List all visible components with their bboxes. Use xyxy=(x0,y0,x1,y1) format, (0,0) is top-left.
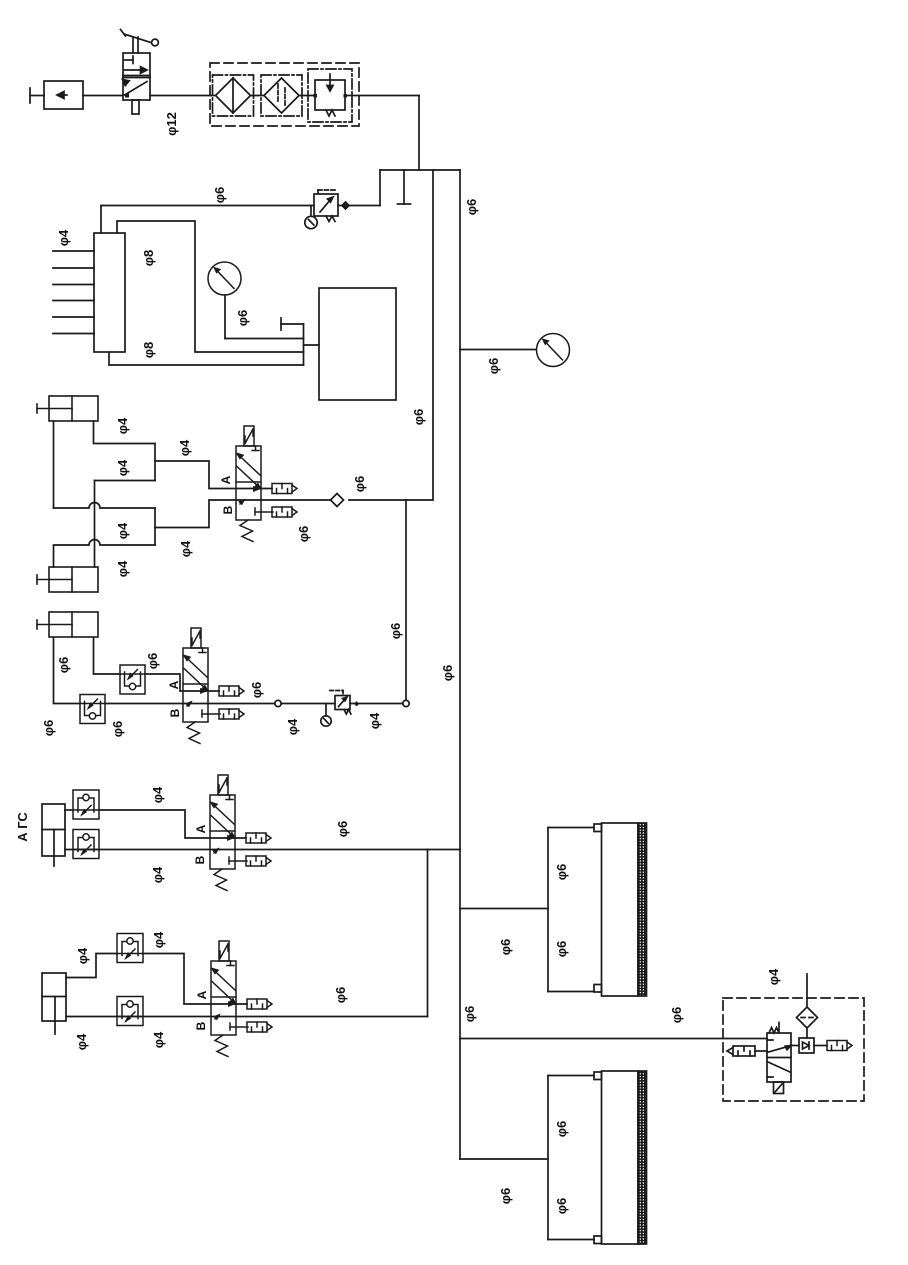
svg-text:φ8: φ8 xyxy=(141,250,156,267)
FRL regulator 3 xyxy=(308,69,359,122)
svg-text:φ4: φ4 xyxy=(151,1031,166,1048)
svg-text:φ6: φ6 xyxy=(249,682,264,699)
svg-text:φ6: φ6 xyxy=(235,310,250,327)
svg-text:φ6: φ6 xyxy=(554,1121,569,1138)
solenoid valve V2 xyxy=(183,628,220,744)
svg-text:φ6: φ6 xyxy=(56,657,71,674)
wire bus to blow-off unit xyxy=(460,1038,767,1040)
wire bus to gauge MH1 xyxy=(460,349,536,351)
wire DR2 to valve V2 xyxy=(105,703,275,705)
plugged stub at receiver xyxy=(281,318,304,330)
svg-text:φ4: φ4 xyxy=(766,968,781,985)
blow-off unit dashed enclosure xyxy=(723,998,864,1101)
solenoid valve V3 xyxy=(210,775,247,891)
wire DR3 to valve V3 port A xyxy=(99,810,246,838)
valve V4 silencer B xyxy=(247,1022,272,1032)
check valve K1 xyxy=(799,1038,814,1053)
long line C5 lower port through V4 to drop xyxy=(66,1016,428,1018)
blow-off silencer right xyxy=(827,1041,852,1051)
wire DR1 to valve V2 port A xyxy=(145,674,219,691)
wire K1 to silencer xyxy=(814,1045,827,1047)
circle node n1 xyxy=(275,700,281,706)
cylinder C1 xyxy=(37,396,98,421)
svg-text:φ6: φ6 xyxy=(554,1198,569,1215)
flow control DR4 xyxy=(73,830,99,859)
wire C1 rod port down xyxy=(53,421,55,508)
gauge MH2 stem xyxy=(225,295,304,339)
blow-off silencer left xyxy=(727,1046,755,1056)
wire C1 cap port to node xyxy=(94,421,156,444)
solenoid valve V1 xyxy=(236,426,273,542)
valve V1 silencer A xyxy=(272,484,297,494)
valve V2 silencer B xyxy=(219,709,244,719)
wire down to C2 cap port xyxy=(94,481,96,568)
node bar B-group xyxy=(154,508,156,545)
valve V3 silencer A xyxy=(246,833,271,843)
svg-text:A: A xyxy=(167,680,181,689)
inlet filter F2 xyxy=(797,974,818,1038)
svg-text:φ12: φ12 xyxy=(164,112,179,136)
long line C4 lower port through V3 to bus xyxy=(65,849,460,851)
valve V2 silencer A xyxy=(219,686,244,696)
svg-text:φ4: φ4 xyxy=(115,459,130,476)
svg-text:φ6: φ6 xyxy=(498,939,513,956)
plugged stub on header xyxy=(398,170,411,204)
valve V5 xyxy=(767,1023,791,1094)
wire DR5 to valve V4 port A xyxy=(143,954,247,1005)
cylinder C4 vertical xyxy=(42,804,65,866)
svg-text:φ6: φ6 xyxy=(498,1188,513,1205)
pressure reducer R1 xyxy=(305,190,338,229)
svg-text:B: B xyxy=(194,1021,208,1030)
svg-text:φ6: φ6 xyxy=(411,409,426,426)
svg-text:φ6: φ6 xyxy=(145,653,160,670)
svg-text:φ4: φ4 xyxy=(367,712,382,729)
wire source to hand valve xyxy=(83,95,123,97)
wire rod-group upper with hop xyxy=(54,503,156,508)
svg-text:φ4: φ4 xyxy=(115,560,130,577)
wire node to reducer R2 xyxy=(281,703,335,705)
bus drop to valve P1 line xyxy=(432,170,434,500)
svg-text:φ4: φ4 xyxy=(285,718,300,735)
wire valve V1 pressure line to bus xyxy=(349,499,433,501)
svg-text:φ4: φ4 xyxy=(150,866,165,883)
svg-text:φ6: φ6 xyxy=(554,941,569,958)
wire FRL to bus drop xyxy=(359,96,419,171)
svg-text:φ6: φ6 xyxy=(352,476,367,493)
wire drop from V3 line to V4 line xyxy=(427,850,429,1017)
svg-text:φ4: φ4 xyxy=(115,417,130,434)
svg-text:φ6: φ6 xyxy=(554,864,569,881)
cylinder C2 xyxy=(37,567,98,592)
svg-text:φ4: φ4 xyxy=(150,786,165,803)
svg-text:φ4: φ4 xyxy=(115,522,130,539)
pressure reducer R2 xyxy=(321,691,359,727)
wire manifold bottom port xyxy=(109,352,304,365)
flow control DR5 xyxy=(117,934,143,963)
svg-text:φ6: φ6 xyxy=(110,721,125,738)
svg-text:φ6: φ6 xyxy=(486,358,501,375)
hand lever valve BH1 xyxy=(121,30,159,115)
gauge MH1 xyxy=(537,334,570,367)
circle node n2 xyxy=(403,700,409,706)
svg-text:φ6: φ6 xyxy=(212,187,227,204)
orifice node on V1 line xyxy=(331,494,344,507)
wire C3 rod port down xyxy=(54,638,81,704)
svg-text:A: A xyxy=(195,990,209,999)
wire rod-group lower with hop xyxy=(54,540,156,568)
svg-text:φ6: φ6 xyxy=(669,1007,684,1024)
receiver inlet stub xyxy=(304,344,320,346)
svg-text:φ4: φ4 xyxy=(177,439,192,456)
wire R2 to junction node xyxy=(350,703,403,705)
svg-text:A: A xyxy=(219,475,233,484)
wire manifold top port 1 xyxy=(100,206,102,234)
manifold block xyxy=(94,233,125,352)
sealing jaw 2 xyxy=(548,1071,647,1244)
svg-text:B: B xyxy=(193,855,207,864)
flow control DR3 xyxy=(73,790,99,819)
svg-text:φ6: φ6 xyxy=(296,526,311,543)
svg-text:φ8: φ8 xyxy=(141,342,156,359)
wire header to reducer R1 xyxy=(338,170,380,209)
wire C3 cap port to flow control xyxy=(94,638,121,674)
air source box Z1 xyxy=(44,81,83,109)
sealing jaw 1 xyxy=(548,823,647,996)
cylinder C3 xyxy=(37,612,98,637)
svg-text:φ6: φ6 xyxy=(41,720,56,737)
receiver tank xyxy=(319,288,396,400)
wire C5 upper port to flow control xyxy=(66,954,117,978)
wire bus to sealing jaw 2 xyxy=(460,1158,548,1160)
svg-text:φ6: φ6 xyxy=(388,623,403,640)
svg-text:φ6: φ6 xyxy=(440,665,455,682)
wire A-group to valve V1 port A xyxy=(155,461,272,489)
solenoid valve V4 xyxy=(211,941,248,1057)
svg-text:φ6: φ6 xyxy=(462,1006,477,1023)
svg-text:φ4: φ4 xyxy=(56,229,71,246)
node bar A-group xyxy=(154,444,156,481)
svg-text:B: B xyxy=(168,708,182,717)
wire V5 to left silencer xyxy=(755,1050,767,1052)
svg-text:B: B xyxy=(221,505,235,514)
valve V1 silencer B xyxy=(272,507,297,517)
cylinder C5 vertical xyxy=(42,973,66,1034)
svg-text:φ4: φ4 xyxy=(151,931,166,948)
flow control DR6 xyxy=(117,997,143,1026)
wire manifold top port 2 to receiver xyxy=(117,221,304,352)
wire node to C2 cap port upper xyxy=(95,480,156,482)
flow control DR1 xyxy=(120,665,145,694)
wire C4 upper port to flow control xyxy=(65,809,73,811)
svg-text:A: A xyxy=(194,824,208,833)
flow control DR2 xyxy=(80,695,105,724)
valve V3 silencer B xyxy=(246,856,271,866)
wire hand valve to FRL xyxy=(150,95,210,97)
wire B-group to valve V1 port B xyxy=(155,500,331,528)
wire drop from V1 line to node n2 xyxy=(405,500,407,700)
svg-text:φ6: φ6 xyxy=(335,821,350,838)
svg-text:А ГС: А ГС xyxy=(15,812,30,842)
receiver junction bar xyxy=(303,324,305,365)
svg-text:φ4: φ4 xyxy=(178,540,193,557)
gauge MH2 xyxy=(208,262,241,295)
svg-text:φ6: φ6 xyxy=(464,199,479,216)
main distribution bus xyxy=(459,170,461,1159)
wire manifold to R1 xyxy=(101,205,314,207)
wire bus to sealing jaw 1 xyxy=(460,908,548,910)
top header bus xyxy=(380,169,460,171)
svg-text:φ4: φ4 xyxy=(75,947,90,964)
FRL water separator 2 xyxy=(261,75,315,116)
wire V5 to K1 xyxy=(791,1045,799,1047)
svg-text:φ6: φ6 xyxy=(333,987,348,1004)
manifold outlet stubs xyxy=(53,251,94,334)
FRL filter 1 xyxy=(210,75,264,116)
svg-text:φ4: φ4 xyxy=(74,1033,89,1050)
valve V4 silencer A xyxy=(247,999,272,1009)
inlet plug stub xyxy=(30,88,44,103)
FRL unit dashed enclosure xyxy=(210,63,359,126)
